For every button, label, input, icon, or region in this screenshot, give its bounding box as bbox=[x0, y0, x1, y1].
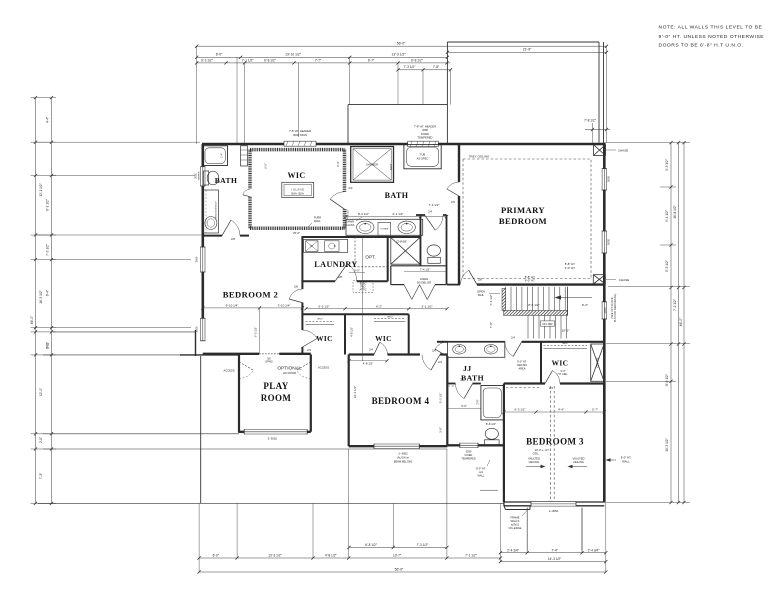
svg-text:WALL: WALL bbox=[478, 474, 486, 478]
svg-text:46′-0″: 46′-0″ bbox=[679, 317, 683, 326]
wic closet hatched walls bbox=[250, 148, 345, 152]
laundry door bbox=[335, 263, 348, 281]
svg-text:16′-8 1/2″: 16′-8 1/2″ bbox=[673, 204, 677, 218]
stairs rail bottom bbox=[504, 310, 568, 315]
dim line 56'-0" top bbox=[197, 45, 607, 47]
svg-text:7′-4 1/2″: 7′-4 1/2″ bbox=[489, 293, 493, 305]
svg-text:2/8: 2/8 bbox=[478, 277, 482, 281]
stairs open rail side bbox=[502, 288, 506, 310]
svg-text:8′-6 1/2″: 8′-6 1/2″ bbox=[528, 303, 540, 307]
svg-text:3′-8″: 3′-8″ bbox=[439, 427, 443, 433]
svg-text:9′-0″ HT.: 9′-0″ HT. bbox=[565, 266, 576, 270]
tower cabinet bbox=[378, 223, 391, 236]
svg-text:BEDROOM 3: BEDROOM 3 bbox=[526, 437, 584, 447]
svg-text:BATH: BATH bbox=[215, 176, 238, 185]
svg-text:4′-8 1/2″: 4′-8 1/2″ bbox=[350, 327, 354, 337]
hall wic shelf bbox=[544, 344, 588, 346]
wic strip dim bbox=[349, 360, 387, 362]
hall dim line right bbox=[306, 308, 447, 310]
svg-text:6′-3 1/2″: 6′-3 1/2″ bbox=[201, 58, 214, 62]
bath toilet bbox=[204, 171, 209, 185]
top dim extension lines bbox=[196, 46, 198, 144]
playroom right wall bbox=[310, 354, 312, 431]
stairs hall bottom wall bbox=[437, 341, 448, 343]
svg-text:8′-8″ HT.: 8′-8″ HT. bbox=[565, 262, 576, 266]
svg-text:7′-4 1/2″: 7′-4 1/2″ bbox=[420, 267, 431, 271]
svg-text:2′-1 1/2″: 2′-1 1/2″ bbox=[422, 304, 433, 308]
chase top right bbox=[594, 145, 606, 156]
svg-text:JJ: JJ bbox=[463, 364, 472, 373]
roof line y355 left bbox=[43, 354, 180, 356]
laundry right wall bbox=[387, 237, 389, 281]
window primary bedroom lower bbox=[602, 231, 607, 253]
svg-text:DOORS TO BE 6′-8″ H.T U.N: DOORS TO BE 6′-8″ H.T U.N.O. bbox=[659, 43, 744, 49]
svg-text:AS SPEC: AS SPEC bbox=[417, 156, 429, 160]
bedroom4 top wall bbox=[349, 353, 374, 355]
svg-text:7′-1 1/2″: 7′-1 1/2″ bbox=[465, 554, 478, 558]
bedroom4 bottom wall bbox=[349, 445, 448, 447]
svg-text:CEIL.: CEIL. bbox=[533, 451, 540, 455]
wic2 shelf bbox=[374, 318, 406, 320]
playroom left wall bbox=[238, 354, 240, 433]
jj toilet bbox=[485, 428, 498, 439]
svg-text:DN 18R: DN 18R bbox=[543, 322, 553, 326]
bath dim line bbox=[346, 216, 447, 218]
window jj bath 3030 bbox=[460, 443, 478, 448]
svg-text:6′-2″: 6′-2″ bbox=[376, 304, 382, 308]
hall center ext line bbox=[362, 237, 364, 361]
svg-text:2/4: 2/4 bbox=[460, 378, 464, 382]
bedroom3 left wall bbox=[503, 384, 505, 503]
svg-text:10′-3 1/2″: 10′-3 1/2″ bbox=[353, 386, 357, 398]
dim line bottom row1 bbox=[349, 546, 447, 548]
svg-text:2–3052: 2–3052 bbox=[398, 452, 408, 456]
svg-text:D: D bbox=[334, 244, 336, 248]
svg-text:6′-3 1/2″: 6′-3 1/2″ bbox=[515, 408, 526, 412]
svg-text:2/6: 2/6 bbox=[451, 200, 455, 204]
svg-text:8′-0″ HT.: 8′-0″ HT. bbox=[476, 467, 486, 471]
porch outline bbox=[526, 508, 528, 551]
jj vanity bbox=[448, 341, 505, 357]
window playroom 3-3052 bbox=[244, 429, 307, 434]
svg-text:TUB: TUB bbox=[420, 152, 426, 156]
svg-text:10′-0″+– HT.: 10′-0″+– HT. bbox=[535, 448, 550, 452]
wic2 door bbox=[374, 342, 380, 354]
svg-text:2′-4 3/4″: 2′-4 3/4″ bbox=[588, 548, 601, 552]
svg-text:BATH: BATH bbox=[385, 191, 409, 200]
svg-text:1′-4″: 1′-4″ bbox=[221, 153, 224, 158]
svg-text:CHASE: CHASE bbox=[396, 240, 406, 244]
dim line porch bbox=[500, 552, 605, 554]
svg-text:3050: 3050 bbox=[195, 173, 198, 179]
jj dims bbox=[448, 408, 481, 410]
svg-text:CHASE: CHASE bbox=[618, 149, 628, 153]
window 3050 temper bath bbox=[200, 167, 205, 186]
svg-text:14′-3 1/2″: 14′-3 1/2″ bbox=[548, 557, 562, 561]
svg-text:PLN FOR NEW DETAIL): PLN FOR NEW DETAIL) bbox=[613, 294, 617, 323]
left dimension lines bbox=[35, 98, 37, 504]
bedroom3 top wall bbox=[504, 382, 545, 384]
svg-text:13′-3 1/2″: 13′-3 1/2″ bbox=[268, 554, 282, 558]
stairs direction arrow bbox=[560, 297, 592, 299]
svg-text:WIC: WIC bbox=[287, 171, 305, 180]
svg-text:TOWER: TOWER bbox=[380, 229, 389, 231]
bath vanity bbox=[203, 190, 218, 233]
roof bump outline bbox=[348, 104, 447, 106]
svg-text:4030 TRAN: 4030 TRAN bbox=[293, 133, 307, 137]
svg-text:3050: 3050 bbox=[195, 256, 199, 262]
svg-text:FURR: FURR bbox=[314, 216, 321, 220]
wc right wall bbox=[446, 215, 448, 285]
svg-text:AREA: AREA bbox=[518, 366, 525, 370]
svg-text:OPNG: OPNG bbox=[265, 359, 273, 363]
window primary bedroom upper bbox=[602, 169, 607, 190]
svg-text:21′-9″: 21′-9″ bbox=[523, 48, 532, 52]
chase mid right label bbox=[606, 279, 616, 281]
svg-text:SHLF: SHLF bbox=[387, 317, 393, 319]
bedroom2 bottom wall bbox=[203, 353, 259, 355]
svg-text:2′-0″: 2′-0″ bbox=[39, 436, 43, 443]
svg-text:WIC: WIC bbox=[375, 334, 392, 343]
svg-text:2/6: 2/6 bbox=[432, 349, 436, 353]
svg-text:2/8: 2/8 bbox=[294, 285, 298, 289]
svg-text:9′-3 1/2″: 9′-3 1/2″ bbox=[439, 393, 443, 404]
wc left wall bbox=[420, 215, 422, 266]
svg-text:OPT.: OPT. bbox=[365, 254, 375, 259]
svg-text:9′-2″: 9′-2″ bbox=[582, 303, 589, 307]
exterior top wall bbox=[202, 143, 605, 146]
svg-text:6′-8 1/2″: 6′-8 1/2″ bbox=[365, 543, 378, 547]
svg-text:7′-3 1/2″: 7′-3 1/2″ bbox=[404, 65, 417, 69]
bedroom2 right wall bbox=[301, 236, 303, 289]
stairs upper treads bbox=[505, 287, 507, 311]
linen dim bbox=[404, 271, 447, 273]
wc toilet bbox=[427, 245, 440, 256]
dim line 21'-9" bbox=[447, 51, 606, 53]
svg-text:VAULTED: VAULTED bbox=[528, 457, 540, 461]
svg-text:CHASE: CHASE bbox=[619, 278, 629, 282]
svg-text:SHLF: SHLF bbox=[562, 343, 568, 345]
svg-text:2′-6″: 2′-6″ bbox=[477, 399, 480, 404]
linen walls bbox=[391, 265, 447, 267]
svg-text:5′-5 1/2″: 5′-5 1/2″ bbox=[665, 259, 669, 272]
trey ceiling dashed bbox=[463, 159, 591, 279]
svg-text:WALLS: WALLS bbox=[511, 519, 520, 523]
bath door bbox=[222, 220, 231, 236]
svg-text:B24+ B24+: B24+ B24+ bbox=[291, 193, 304, 196]
svg-text:5′-0″: 5′-0″ bbox=[354, 269, 360, 273]
svg-text:FIXED: FIXED bbox=[421, 132, 429, 136]
window 3050 bedroom2 upper bbox=[200, 247, 205, 272]
hall wic left wall bbox=[540, 342, 542, 384]
svg-text:7′-3 1/2″: 7′-3 1/2″ bbox=[417, 543, 430, 547]
svg-text:2/4: 2/4 bbox=[549, 386, 553, 390]
svg-text:6′-7″: 6′-7″ bbox=[368, 58, 375, 62]
jj tub bbox=[481, 386, 504, 420]
svg-text:5′-0″: 5′-0″ bbox=[461, 404, 467, 408]
roof line y503 bbox=[38, 502, 504, 504]
jj bath bottom wall bbox=[447, 444, 504, 446]
svg-text:6′-8 1/2″: 6′-8 1/2″ bbox=[486, 422, 496, 426]
svg-text:6′-0″: 6′-0″ bbox=[213, 554, 220, 558]
svg-text:4′-8 1/2″: 4′-8 1/2″ bbox=[363, 362, 374, 366]
chase tall right bbox=[591, 344, 604, 381]
svg-text:VB030 4SE/SOLIT: VB030 4SE/SOLIT bbox=[216, 200, 218, 219]
wic1 wic2 top wall bbox=[302, 313, 408, 315]
svg-text:3050: 3050 bbox=[607, 175, 611, 182]
svg-text:TEMPERED: TEMPERED bbox=[461, 456, 476, 460]
right dimension lines bbox=[670, 143, 672, 503]
svg-text:2′-1 1/2″: 2′-1 1/2″ bbox=[393, 212, 404, 216]
jj bath south door bbox=[464, 384, 473, 399]
svg-text:4′-4″: 4′-4″ bbox=[46, 116, 50, 123]
svg-text:BEDROOM 2: BEDROOM 2 bbox=[223, 289, 278, 299]
svg-text:9′-0″ HT.: 9′-0″ HT. bbox=[517, 359, 527, 363]
dim line top row3 bbox=[197, 62, 451, 64]
svg-text:7′-8 1/2″: 7′-8 1/2″ bbox=[584, 119, 597, 123]
svg-text:6′-0″: 6′-0″ bbox=[216, 53, 223, 57]
wic1 shelf bbox=[306, 321, 335, 323]
svg-text:GLASS: GLASS bbox=[346, 223, 355, 227]
hall wic door bbox=[545, 371, 553, 384]
svg-text:4′-1 1/2″: 4′-1 1/2″ bbox=[345, 209, 349, 219]
svg-text:3050: 3050 bbox=[195, 326, 199, 332]
jj bath hall door bbox=[513, 342, 522, 357]
roof line y449 bbox=[43, 448, 447, 450]
svg-text:13′-3 1/2″: 13′-3 1/2″ bbox=[392, 53, 407, 57]
svg-text:16′-3 1/2″: 16′-3 1/2″ bbox=[39, 289, 43, 303]
left wall jog bbox=[195, 330, 197, 356]
svg-text:ATTIC: ATTIC bbox=[359, 289, 366, 292]
svg-text:ON–EDGE: ON–EDGE bbox=[509, 526, 522, 530]
roof line y434 bbox=[43, 433, 239, 435]
primary bedroom door arc bbox=[469, 270, 477, 284]
svg-text:FRAME: FRAME bbox=[510, 516, 519, 520]
svg-text:PLAY: PLAY bbox=[263, 381, 288, 391]
chase mid right bbox=[593, 275, 605, 284]
window stair landing bbox=[602, 302, 607, 319]
svg-text:RAIL: RAIL bbox=[478, 293, 485, 297]
storage left wall bbox=[200, 356, 202, 503]
svg-text:NOTE: ALL WALLS THIS LEVEL: NOTE: ALL WALLS THIS LEVEL TO BE bbox=[659, 25, 763, 31]
svg-text:2/8: 2/8 bbox=[338, 275, 342, 279]
shower bbox=[351, 147, 394, 183]
svg-text:ACCESS: ACCESS bbox=[318, 366, 329, 370]
svg-text:10′-3 1/2″: 10′-3 1/2″ bbox=[665, 437, 669, 451]
laundry top wall bbox=[302, 236, 420, 238]
svg-text:6′-8 1/2″: 6′-8 1/2″ bbox=[411, 58, 424, 62]
svg-text:LINEN: LINEN bbox=[420, 277, 428, 281]
svg-text:WIC: WIC bbox=[316, 334, 333, 343]
chase top right label bbox=[606, 149, 616, 151]
stairs lower treads bbox=[527, 315, 529, 338]
exterior left wall bbox=[202, 144, 205, 332]
svg-text:6′-3 1/2″: 6′-3 1/2″ bbox=[254, 327, 258, 338]
exterior right wall bbox=[603, 143, 606, 503]
wc door arc bbox=[425, 216, 435, 231]
svg-text:CEILING: CEILING bbox=[517, 363, 527, 367]
hall dim vertical bbox=[259, 308, 261, 354]
svg-text:VAULTED: VAULTED bbox=[573, 457, 585, 461]
svg-text:3050: 3050 bbox=[607, 238, 611, 245]
dim line top row4 bbox=[398, 69, 451, 71]
svg-text:25′-0″: 25′-0″ bbox=[293, 231, 300, 235]
svg-text:7′-8″ HT. HEADER: 7′-8″ HT. HEADER bbox=[414, 125, 436, 129]
window bedroom4 2-3052 bbox=[374, 444, 419, 449]
chase laundry bbox=[391, 238, 420, 265]
bedroom3 dim line bbox=[504, 411, 604, 413]
playroom left access door bbox=[239, 362, 253, 370]
svg-text:4′-4″: 4′-4″ bbox=[558, 408, 564, 412]
bedroom2 door bbox=[289, 299, 302, 303]
elec pad attic bbox=[353, 281, 373, 293]
svg-text:7′-1 1/2″: 7′-1 1/2″ bbox=[242, 58, 255, 62]
svg-text:3050: 3050 bbox=[603, 307, 607, 314]
playroom right access door bbox=[296, 362, 310, 370]
bedroom4 door bbox=[431, 355, 440, 371]
svg-text:2/0 DOOR: 2/0 DOOR bbox=[283, 371, 296, 375]
svg-text:9′-10 1/4″: 9′-10 1/4″ bbox=[226, 304, 239, 308]
bedroom4 left wall bbox=[348, 355, 350, 447]
linen doors bbox=[404, 285, 412, 300]
svg-text:9′-3 1/2″: 9′-3 1/2″ bbox=[665, 158, 669, 171]
svg-text:BEAM BELOW): BEAM BELOW) bbox=[394, 459, 412, 463]
svg-text:7′-1 1/2″: 7′-1 1/2″ bbox=[429, 203, 440, 207]
svg-text:10′-2″: 10′-2″ bbox=[562, 329, 571, 333]
bedroom3 bottom wall bbox=[504, 501, 604, 503]
svg-text:CHASE: CHASE bbox=[596, 357, 600, 367]
primary bath door arc bbox=[447, 189, 459, 196]
wic divider wall bbox=[344, 314, 346, 354]
primary bedroom left wall bbox=[458, 144, 460, 182]
bedroom3 ridge dashed bbox=[550, 386, 552, 499]
svg-text:7′-3 1/2″: 7′-3 1/2″ bbox=[46, 243, 50, 256]
svg-text:8′-4 1/2″: 8′-4 1/2″ bbox=[358, 212, 369, 216]
svg-text:HT. CEIL.: HT. CEIL. bbox=[558, 373, 569, 376]
bath linen cab bbox=[241, 146, 248, 166]
svg-text:5/0 DBL DR: 5/0 DBL DR bbox=[417, 281, 431, 285]
svg-text:6′-4″: 6′-4″ bbox=[46, 289, 50, 296]
svg-text:TEMPERED: TEMPERED bbox=[418, 136, 433, 140]
svg-text:7′-4″: 7′-4″ bbox=[551, 548, 558, 552]
svg-text:SHWR: SHWR bbox=[346, 220, 354, 224]
svg-text:56′-0″: 56′-0″ bbox=[395, 568, 404, 572]
wic1 door bbox=[302, 339, 317, 348]
svg-text:3–3052: 3–3052 bbox=[268, 436, 278, 440]
svg-text:BEDROOM 4: BEDROOM 4 bbox=[372, 396, 430, 406]
dim line bottom row2 bbox=[199, 557, 500, 559]
svg-text:WIC: WIC bbox=[552, 359, 569, 368]
svg-text:7′-7″: 7′-7″ bbox=[315, 58, 322, 62]
svg-text:6′-3 1/2″: 6′-3 1/2″ bbox=[319, 304, 330, 308]
svg-text:12′-1 1/2″: 12′-1 1/2″ bbox=[39, 182, 43, 196]
svg-text:3′-10 1/4″: 3′-10 1/4″ bbox=[278, 304, 291, 308]
svg-text:w/2x12: w/2x12 bbox=[511, 522, 520, 526]
primary tub bbox=[404, 145, 441, 169]
svg-text:BATH: BATH bbox=[461, 374, 484, 383]
svg-text:2–3050: 2–3050 bbox=[549, 509, 559, 513]
window 3050 bedroom2 lower bbox=[200, 318, 205, 341]
svg-text:7′-4″: 7′-4″ bbox=[46, 341, 50, 348]
svg-text:9′-0″ HT. UNLESS NOTED OTH: 9′-0″ HT. UNLESS NOTED OTHERWISE bbox=[659, 34, 765, 40]
svg-text:2/8: 2/8 bbox=[231, 237, 235, 241]
jj bath west door bbox=[435, 349, 448, 356]
svg-text:46′-0″: 46′-0″ bbox=[30, 315, 34, 324]
svg-text:13′-7″: 13′-7″ bbox=[393, 554, 402, 558]
svg-text:SHOWER: SHOWER bbox=[366, 163, 378, 167]
hall ceiling dashed bbox=[506, 386, 540, 388]
svg-text:I S L A N D: I S L A N D bbox=[292, 187, 305, 191]
hall dim line left bbox=[203, 307, 303, 309]
svg-text:56′-0″: 56′-0″ bbox=[397, 42, 406, 46]
wic island bbox=[282, 182, 314, 197]
primary vanity bbox=[346, 219, 423, 235]
roof line y332 bbox=[53, 331, 196, 333]
jj bath west wall bbox=[446, 356, 448, 446]
svg-text:6′-8 1/2″: 6′-8 1/2″ bbox=[264, 58, 277, 62]
svg-text:TREY CEILING: TREY CEILING bbox=[469, 155, 490, 159]
svg-text:4′-8 1/2″: 4′-8 1/2″ bbox=[325, 554, 338, 558]
svg-text:6′-1 1/2″: 6′-1 1/2″ bbox=[46, 198, 50, 211]
svg-text:BEDROOM: BEDROOM bbox=[499, 216, 547, 226]
dim line 56'-0" bottom bbox=[199, 571, 606, 573]
svg-text:TEMPER: TEMPER bbox=[199, 171, 201, 181]
bottom dim extension lines bbox=[198, 503, 200, 572]
svg-text:2/4: 2/4 bbox=[438, 360, 442, 364]
laundry bottom wall bbox=[302, 280, 335, 282]
wc top wall bbox=[416, 214, 425, 216]
svg-text:7′-3″: 7′-3″ bbox=[39, 472, 43, 479]
svg-text:2/4: 2/4 bbox=[369, 348, 373, 352]
svg-text:WALL: WALL bbox=[314, 219, 322, 223]
svg-text:SHLF: SHLF bbox=[317, 319, 323, 321]
svg-text:2/4: 2/4 bbox=[511, 336, 515, 340]
svg-text:7′-8″: 7′-8″ bbox=[489, 321, 493, 328]
bedroom3 bottom-left step bbox=[504, 506, 506, 510]
laundry opt cab bbox=[355, 238, 388, 267]
svg-text:8′-6 1/2″: 8′-6 1/2″ bbox=[665, 373, 669, 386]
wic left door bbox=[243, 195, 250, 197]
svg-text:(ALIGN w/: (ALIGN w/ bbox=[397, 456, 409, 460]
svg-text:2′-7″: 2′-7″ bbox=[592, 408, 598, 412]
playroom bottom wall bbox=[239, 431, 311, 433]
svg-text:w/1: w/1 bbox=[479, 470, 484, 474]
svg-text:ROOM: ROOM bbox=[261, 393, 292, 403]
stairs dn label bbox=[541, 321, 555, 326]
svg-text:2′-4 3/4″: 2′-4 3/4″ bbox=[507, 548, 520, 552]
header 4030 tran bbox=[284, 141, 316, 146]
svg-text:ACCESS: ACCESS bbox=[223, 368, 234, 372]
svg-text:SEAT: SEAT bbox=[390, 163, 393, 170]
header 4080 fixed bbox=[408, 141, 439, 146]
svg-text:2/4: 2/4 bbox=[349, 186, 353, 190]
svg-text:7′-2 1/2″: 7′-2 1/2″ bbox=[673, 298, 677, 311]
jj bath tub alcove wall bbox=[447, 383, 455, 385]
svg-text:LAUNDRY: LAUNDRY bbox=[314, 260, 357, 269]
stairs landing edge bbox=[567, 287, 569, 316]
bath bottom wall bbox=[203, 235, 222, 237]
svg-text:6′-4″: 6′-4″ bbox=[336, 161, 340, 167]
roof outline top-right bbox=[447, 41, 599, 43]
svg-text:CEILING: CEILING bbox=[529, 460, 540, 464]
svg-text:9′-0″ HT.: 9′-0″ HT. bbox=[525, 279, 536, 283]
svg-text:6′-0″: 6′-0″ bbox=[264, 163, 268, 169]
svg-text:12′-1″: 12′-1″ bbox=[39, 387, 43, 396]
svg-text:CEILING: CEILING bbox=[573, 460, 584, 464]
svg-text:WALL: WALL bbox=[622, 459, 630, 463]
svg-text:2/4: 2/4 bbox=[307, 348, 311, 352]
primary bedroom bottom wall bbox=[477, 283, 604, 285]
